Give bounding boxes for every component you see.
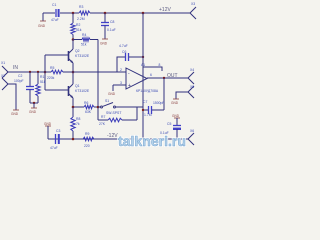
node junction — [163, 77, 165, 79]
svg-text:Q1: Q1 — [75, 84, 80, 88]
svg-text:X4: X4 — [190, 68, 194, 72]
svg-text:+12V: +12V — [159, 7, 171, 13]
svg-text:R7: R7 — [101, 115, 105, 119]
capacitor C8 0.1uF — [101, 20, 116, 32]
ground GND2 — [100, 39, 108, 46]
wire long vertical to switch — [97, 40, 99, 121]
wire C8 drop — [104, 13, 106, 22]
wire feedback vertical — [163, 78, 165, 110]
wire C6 left drop — [117, 57, 125, 72]
svg-text:63K: 63K — [85, 110, 92, 114]
svg-text:2: 2 — [120, 68, 122, 72]
resistor R6 63K — [84, 101, 98, 114]
svg-text:R5: R5 — [50, 66, 54, 70]
node junction — [176, 138, 178, 140]
svg-text:47uF: 47uF — [51, 18, 59, 22]
node junction — [142, 12, 145, 15]
capacitor C7 1500pF — [143, 100, 165, 117]
svg-text:GND: GND — [171, 101, 179, 105]
wire — [60, 12, 79, 14]
node junction — [33, 102, 35, 104]
wire switch box right — [136, 107, 138, 120]
svg-text:R1: R1 — [40, 75, 44, 79]
svg-text:7k: 7k — [76, 122, 80, 126]
svg-text:C2: C2 — [18, 74, 22, 78]
ground GND4 — [11, 110, 19, 116]
wire V pins through opamp — [142, 76, 144, 81]
svg-text:R9: R9 — [85, 132, 89, 136]
wire pin2 line — [73, 71, 126, 73]
svg-text:GND: GND — [29, 110, 37, 114]
capacitor C5 0.1uF — [160, 122, 181, 139]
svg-text:C8: C8 — [110, 20, 114, 24]
watermark — [118, 134, 186, 149]
svg-text:Q2: Q2 — [75, 49, 80, 53]
wire pin3 — [113, 84, 126, 86]
ground GND6 — [171, 99, 179, 105]
node junction — [72, 138, 75, 141]
svg-text:X5: X5 — [190, 85, 194, 89]
svg-text:X2: X2 — [1, 74, 5, 78]
svg-text:C3: C3 — [56, 129, 60, 133]
resistor R3 2.2M — [77, 5, 90, 21]
connector X5 — [188, 85, 194, 98]
wire base Q1 — [45, 89, 69, 91]
svg-text:0.1uF: 0.1uF — [107, 28, 116, 32]
svg-text:51k: 51k — [40, 80, 46, 84]
node junction — [72, 12, 75, 15]
svg-text:51k: 51k — [81, 43, 87, 47]
capacitor C1 47uF — [51, 3, 59, 22]
svg-text:S1: S1 — [105, 99, 109, 103]
svg-text:C5: C5 — [167, 122, 171, 126]
wire base Q2 — [45, 54, 69, 56]
svg-text:GND: GND — [38, 24, 46, 28]
wire — [112, 85, 114, 91]
svg-text:220k: 220k — [47, 76, 55, 80]
capacitor C3 47uF on rail — [50, 129, 60, 150]
node junction — [142, 109, 144, 111]
switch S1 — [98, 99, 143, 115]
svg-text:GND: GND — [11, 112, 19, 116]
ground GND3 — [29, 108, 37, 114]
svg-text:R3: R3 — [79, 5, 83, 9]
svg-text:X6: X6 — [190, 129, 194, 133]
svg-text:1.7M: 1.7M — [144, 113, 152, 117]
svg-text:IN: IN — [13, 65, 18, 71]
wire pin8 branch — [143, 67, 162, 71]
node junction — [37, 71, 39, 73]
ground GND1 top-left — [38, 13, 46, 28]
svg-text:GND: GND — [108, 92, 116, 96]
svg-text:GND: GND — [100, 42, 108, 46]
transistor Q1 KT3102 — [69, 72, 90, 107]
svg-text:X1: X1 — [1, 61, 5, 65]
node junction — [97, 106, 100, 109]
svg-text:R6: R6 — [84, 101, 88, 105]
wire top rail right — [90, 12, 190, 14]
bottom rail — [48, 138, 188, 140]
svg-text:C6: C6 — [122, 50, 126, 54]
svg-text:KT3102E: KT3102E — [75, 54, 90, 58]
svg-text:100pF: 100pF — [14, 79, 24, 83]
svg-text:GND: GND — [172, 114, 180, 118]
svg-text:1500pF: 1500pF — [153, 101, 165, 105]
node junction — [142, 138, 144, 140]
wire R5 row — [73, 106, 84, 108]
resistor R2 51k vertical — [71, 13, 82, 40]
resistor R9 220 on rail — [83, 132, 94, 148]
ground GND8 above C5 — [172, 114, 180, 125]
node junction — [72, 106, 75, 109]
svg-text:-12V: -12V — [107, 133, 118, 139]
node junction — [72, 38, 75, 41]
svg-text:SW-SPST: SW-SPST — [106, 111, 121, 115]
wire top rail left — [43, 12, 55, 14]
node junction — [104, 12, 107, 15]
wire base loop vertical — [44, 55, 46, 90]
wire input — [8, 71, 51, 73]
connector X3 — [190, 2, 196, 19]
ground GND7 above C3 — [44, 122, 52, 139]
svg-text:C7: C7 — [143, 100, 147, 104]
wire output — [147, 77, 188, 79]
resistor R1 51k input vertical — [36, 72, 46, 103]
wire — [176, 92, 188, 99]
svg-text:6: 6 — [150, 73, 152, 77]
svg-text:R2: R2 — [76, 23, 80, 27]
node junction — [142, 56, 144, 58]
connector X4 — [188, 68, 194, 84]
wire input bottom — [30, 102, 38, 104]
wire — [33, 103, 35, 108]
resistor R8 7k vertical — [71, 107, 81, 139]
svg-text:27K: 27K — [99, 122, 106, 126]
svg-text:220: 220 — [84, 144, 90, 148]
node junction — [44, 71, 47, 74]
svg-text:2.2M: 2.2M — [77, 17, 85, 21]
wire V- below opamp — [142, 81, 144, 139]
svg-text:R4: R4 — [82, 33, 86, 37]
op-amp U1 KR140UD708 — [120, 63, 161, 93]
resistor R4 51k horizontal — [73, 33, 98, 47]
connector X1 input — [1, 61, 8, 78]
svg-text:KT3102E: KT3102E — [75, 89, 90, 93]
wire — [8, 84, 16, 110]
connector X2 input gnd — [1, 74, 8, 90]
svg-text:X3: X3 — [191, 2, 195, 6]
connector X6 — [188, 129, 194, 145]
svg-text:3: 3 — [120, 81, 122, 85]
svg-text:OUT: OUT — [167, 73, 178, 79]
svg-text:C1: C1 — [52, 3, 56, 7]
svg-text:4.7uF: 4.7uF — [119, 44, 128, 48]
wire V+ drop — [142, 13, 144, 76]
resistor R5 220k — [47, 66, 73, 80]
transistor Q2 KT3102 — [69, 40, 90, 73]
svg-text:+: + — [128, 83, 131, 89]
svg-text:8: 8 — [159, 63, 161, 67]
svg-text:talkneri.ru: talkneri.ru — [118, 134, 186, 149]
capacitor C6 4.7uF — [119, 44, 143, 61]
svg-text:47uF: 47uF — [50, 146, 58, 150]
svg-text:R8: R8 — [76, 117, 80, 121]
svg-text:GND: GND — [44, 122, 52, 126]
svg-text:51k: 51k — [76, 28, 82, 32]
svg-text:КР140УД708А: КР140УД708А — [136, 89, 159, 93]
resistor R7 27K — [98, 115, 137, 126]
wire — [104, 26, 106, 40]
node junction — [72, 71, 75, 74]
node junction — [29, 71, 31, 73]
capacitor C2 100pF input — [14, 72, 34, 103]
